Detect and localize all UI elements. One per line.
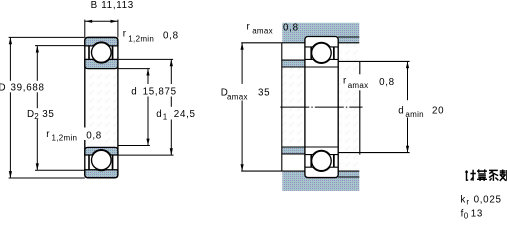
shaft shoulder bottom line [282, 153, 305, 155]
svg-text:13: 13 [471, 209, 483, 220]
centerline [280, 106, 362, 108]
air gap left bottom (white) [282, 155, 305, 171]
inner ring top edge [306, 58, 338, 60]
svg-text:r: r [46, 129, 50, 140]
text background boxes (right figure) [218, 74, 445, 117]
ball top [312, 43, 332, 63]
metal hatch background [282, 23, 360, 191]
outer ring race line top [306, 46, 338, 48]
d_amin arrowheads [406, 61, 409, 68]
shaft left end face [281, 43, 283, 171]
svg-text:0,8: 0,8 [379, 77, 395, 88]
svg-text:r: r [466, 197, 469, 206]
housing step line bottom right [338, 170, 359, 172]
D arrowheads [9, 37, 12, 44]
cage bars top half [88, 45, 90, 59]
shaft seat line top [282, 66, 338, 68]
B dimension line [85, 20, 118, 22]
housing block top [282, 23, 359, 43]
bearing body (white) [305, 37, 338, 178]
text background boxes (left figure) [9, 81, 196, 140]
shaft shoulder top line [282, 59, 305, 61]
housing bore line top right [338, 36, 359, 38]
svg-text:amax: amax [252, 27, 273, 36]
heading (CJK) 计算系数 drawn as glyph strokes [465, 169, 507, 181]
shaft right end face [359, 61, 361, 154]
housing bore line bottom right [338, 176, 359, 178]
cage bars bottom half [88, 155, 90, 170]
svg-text:0,8: 0,8 [163, 30, 179, 41]
svg-text:0: 0 [464, 212, 469, 221]
bearing outline [85, 37, 118, 177]
d_amin dimension line [407, 61, 409, 152]
d1 extension lines [118, 59, 174, 155]
d extension lines [118, 69, 150, 146]
svg-text:1: 1 [163, 112, 168, 121]
inner ring top half [85, 59, 118, 68]
ball bottom [312, 151, 332, 171]
svg-text:1,2min: 1,2min [52, 134, 78, 143]
svg-text:15,875: 15,875 [143, 87, 177, 98]
svg-text:k: k [460, 194, 466, 205]
air gap left top (white) [282, 44, 305, 60]
shaft seat line bottom [282, 146, 338, 148]
D2 extension lines [35, 46, 85, 171]
shaft shoulder top [282, 60, 305, 67]
svg-text:D: D [0, 83, 6, 94]
svg-text:B 11,113: B 11,113 [91, 0, 134, 11]
groove arcs top [311, 42, 332, 63]
D extension lines [9, 37, 85, 178]
ball top half [92, 43, 112, 63]
outer ring race line bottom [306, 166, 338, 168]
d1 dimension line [170, 59, 172, 155]
outer ring bottom half [85, 170, 118, 178]
svg-text:35: 35 [258, 87, 270, 98]
svg-text:0,025: 0,025 [474, 194, 502, 205]
D_amax dimension line [241, 43, 243, 171]
B arrowheads [85, 20, 92, 23]
shaft shoulder bottom [282, 147, 305, 154]
inner ring bottom edge [306, 154, 338, 156]
outer ring top half [85, 37, 118, 46]
d dimension line [147, 69, 149, 146]
svg-text:d: d [156, 109, 162, 120]
svg-text:r: r [247, 22, 251, 33]
svg-text:24,5: 24,5 [174, 109, 196, 120]
housing block bottom [282, 171, 359, 191]
cage bars top [310, 47, 312, 60]
d_amin extension top [338, 60, 409, 62]
groove arcs bottom [311, 150, 332, 171]
inner ring bottom half [85, 147, 118, 155]
B extension lines [85, 20, 118, 38]
ball bottom half [92, 150, 112, 170]
bore hatch background [85, 69, 117, 147]
housing shoulder line bottom / D_amax extension [241, 170, 305, 172]
svg-text:d: d [398, 106, 404, 117]
svg-text:0,8: 0,8 [86, 131, 102, 142]
d_amin extension bottom [338, 152, 409, 154]
D_amax arrowheads [241, 43, 244, 50]
svg-text:r: r [343, 76, 347, 87]
svg-text:amax: amax [227, 93, 248, 102]
cage bars bottom [310, 154, 312, 167]
svg-text:1,2min: 1,2min [128, 35, 154, 44]
svg-text:2: 2 [34, 112, 39, 121]
groove arcs top half [91, 42, 112, 63]
svg-text:39,688: 39,688 [11, 83, 45, 94]
d arrowheads [146, 69, 149, 76]
svg-text:35: 35 [42, 109, 54, 120]
svg-text:amax: amax [348, 81, 369, 90]
svg-text:d: d [131, 87, 137, 98]
D2 arrowheads [36, 46, 39, 53]
D dimension line [9, 37, 11, 178]
svg-text:amin: amin [405, 110, 424, 119]
housing shoulder line top / D_amax extension [241, 42, 305, 44]
svg-text:r: r [123, 28, 127, 39]
svg-text:0,8: 0,8 [283, 23, 299, 34]
D2 dimension line [36, 46, 38, 171]
svg-text:20: 20 [432, 106, 444, 117]
d1 arrowheads [170, 59, 173, 66]
groove arcs bottom half [91, 150, 112, 171]
housing step line top right [338, 42, 359, 44]
